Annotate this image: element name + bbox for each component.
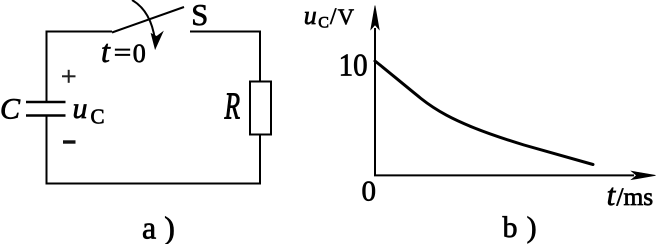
svg-text:u: u xyxy=(304,1,317,30)
wire left vertical bottom segment xyxy=(46,116,48,185)
label t=0 xyxy=(101,33,146,69)
svg-text:t: t xyxy=(101,33,111,69)
svg-text:/: / xyxy=(330,4,337,29)
label b) xyxy=(503,211,538,244)
label S xyxy=(191,0,208,32)
tick label 10 xyxy=(339,47,368,83)
wire bottom xyxy=(46,183,262,185)
svg-text:b ): b ) xyxy=(503,211,538,244)
svg-text:=: = xyxy=(114,38,132,67)
origin label 0 xyxy=(362,176,377,208)
svg-text:u: u xyxy=(73,92,88,125)
svg-text:t: t xyxy=(607,177,617,212)
label a) xyxy=(142,210,175,244)
capacitor C bottom plate xyxy=(26,114,66,117)
svg-text:a ): a ) xyxy=(142,210,175,244)
svg-text:V: V xyxy=(338,4,354,29)
wire left vertical top segment xyxy=(46,31,48,102)
wire right vertical lower xyxy=(259,135,261,185)
svg-text:C: C xyxy=(0,93,21,126)
switch motion arrow t=0 xyxy=(132,0,163,49)
label R xyxy=(224,85,241,127)
axis label uC/V xyxy=(304,1,354,32)
wire right vertical upper xyxy=(259,31,261,83)
wire top left segment xyxy=(46,31,113,33)
svg-text:S: S xyxy=(191,0,208,32)
switch S lever xyxy=(112,7,184,33)
axis label t/ms xyxy=(607,177,654,212)
discharge curve uC(t) xyxy=(375,61,593,165)
graph x-axis xyxy=(374,171,656,179)
svg-text:10: 10 xyxy=(339,47,368,83)
resistor R body xyxy=(250,82,271,135)
plus polarity mark xyxy=(62,70,76,83)
svg-text:/ms: /ms xyxy=(616,182,653,211)
svg-text:C: C xyxy=(318,14,329,31)
label C xyxy=(0,93,21,126)
wire top right segment xyxy=(190,31,261,33)
label uC (capacitor voltage) xyxy=(73,92,105,129)
svg-text:C: C xyxy=(91,105,105,129)
graph y-axis xyxy=(371,6,379,176)
svg-text:0: 0 xyxy=(133,39,146,68)
svg-text:0: 0 xyxy=(362,176,377,208)
capacitor C top plate xyxy=(26,101,66,104)
minus polarity mark xyxy=(63,140,76,143)
svg-text:R: R xyxy=(224,85,241,127)
